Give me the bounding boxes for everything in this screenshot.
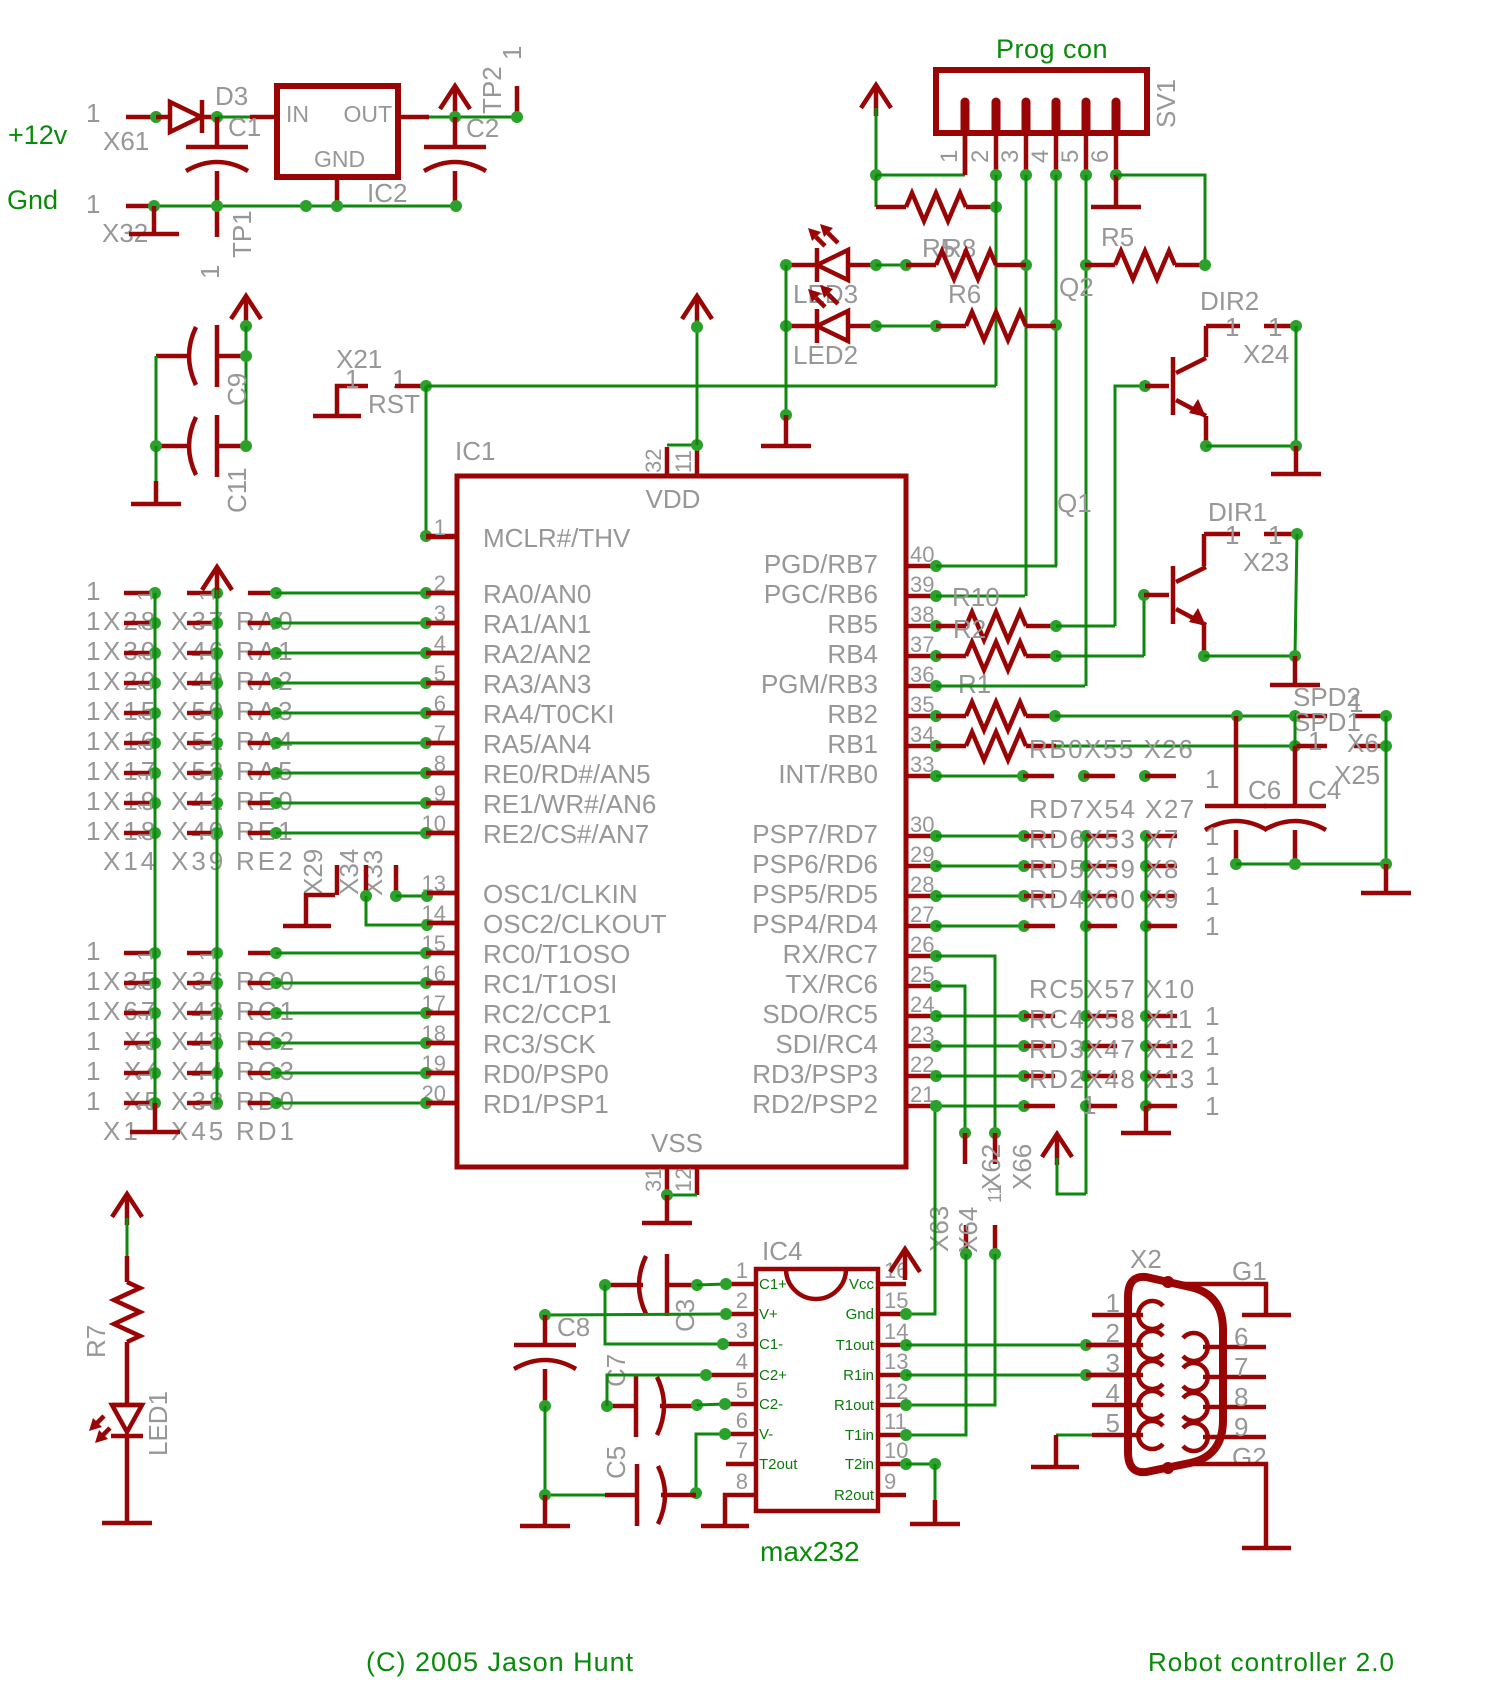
svg-text:C4: C4 [1308,775,1341,805]
svg-text:X62: X62 [976,1144,1006,1190]
Q1 base wire [1138,589,1169,656]
label C2 [466,113,499,143]
svg-text:7: 7 [1234,1352,1248,1382]
labels X17 X52 RA5 [103,756,296,786]
capacitor C6 [1205,716,1267,864]
connector row RC2 at y=1013: header pins and wire to IC1 [86,996,457,1026]
svg-text:VDD: VDD [646,484,701,514]
svg-text:T1out: T1out [836,1337,875,1354]
testpoint TP1 label [195,210,257,279]
title text [1148,1647,1395,1677]
label IC4 [762,1236,802,1266]
ground symbol below right GND rail [1121,1106,1171,1133]
connector X66 pin [989,1127,1001,1164]
IC4 pin8 to ground [701,1469,756,1526]
svg-text:RD2X48 X13: RD2X48 X13 [1029,1064,1196,1094]
svg-text:Q1: Q1 [1057,488,1092,518]
VDD jumper wire [667,444,697,447]
label X6 [1347,728,1379,758]
junction X32 [148,200,160,212]
svg-text:PGC/RB6: PGC/RB6 [764,579,878,609]
svg-text:TX/RC6: TX/RC6 [786,969,878,999]
svg-text:RE1/WR#/AN6: RE1/WR#/AN6 [483,789,656,819]
connector X34 pin [335,865,340,895]
Q1 emitter junctions and wire [1198,650,1301,662]
ground symbol below LEDs [761,415,811,446]
svg-text:12: 12 [671,1168,696,1192]
wire V- hook [690,1428,731,1499]
junction at C2 top [449,111,461,123]
svg-text:1: 1 [1205,821,1219,851]
capacitor C3 [605,1254,697,1316]
svg-text:X23: X23 [1243,547,1289,577]
svg-text:MCLR#/THV: MCLR#/THV [483,523,631,553]
svg-text:X63: X63 [924,1206,954,1252]
SV1 pin4 wire down [1055,175,1058,566]
svg-text:1: 1 [86,189,100,219]
svg-text:PSP5/RD5: PSP5/RD5 [752,879,878,909]
svg-text:T1in: T1in [845,1427,874,1444]
svg-text:RA5/AN4: RA5/AN4 [483,729,591,759]
svg-text:1: 1 [1205,1091,1219,1121]
svg-text:X33: X33 [358,850,388,896]
junction on gnd wire [300,200,312,212]
svg-text:1: 1 [345,364,359,394]
label RST [368,389,420,419]
connector row RD0 at y=1073: header pins and wire to IC1 [86,1056,457,1086]
svg-text:C9: C9 [222,373,252,406]
wire V+ to C8 [539,1308,732,1321]
left column wire C9-C11 [155,356,158,446]
resistor at RB2 row (SPD2 net) [930,702,1061,730]
svg-text:R2out: R2out [834,1487,875,1504]
resistor R7 [114,1256,140,1405]
svg-text:1: 1 [1205,881,1219,911]
svg-text:1: 1 [86,1026,100,1056]
connector row RC3 at y=1043: header pins and wire to IC1 [86,1026,457,1056]
IC1 left pin stubs, numbers and names [422,515,667,1119]
svg-text:X66: X66 [1007,1144,1037,1190]
junction C11 right [240,440,252,452]
svg-text:1: 1 [1205,851,1219,881]
connector X33 pin [360,865,372,902]
svg-text:LED2: LED2 [793,340,858,370]
svg-text:C1-: C1- [759,1336,783,1353]
svg-text:X29: X29 [298,849,328,895]
ground symbol below Q2 emitter [1271,446,1321,474]
connector row RE1 at y=803: header pins and wire to IC1 [86,786,457,816]
connector row RE2 at y=833: header pins and wire to IC1 [86,816,457,846]
svg-text:1: 1 [86,936,100,966]
svg-text:RB2: RB2 [827,699,878,729]
label X33 [358,850,388,896]
svg-text:RD0/PSP0: RD0/PSP0 [483,1059,609,1089]
junction X24 right [1290,320,1302,332]
label LED2 [793,340,858,370]
svg-text:RC3/SCK: RC3/SCK [483,1029,596,1059]
svg-text:LED1: LED1 [143,1391,173,1456]
label X2 [1130,1244,1162,1274]
labels RD7X54 X27 [1029,794,1196,824]
net label max232 [760,1536,860,1567]
svg-text:C1: C1 [228,112,261,142]
svg-text:RD3/PSP3: RD3/PSP3 [752,1059,878,1089]
svg-text:9: 9 [884,1469,896,1494]
SV1 pin2 wire down to RST [995,175,998,386]
connector row RD7X54 X27 at y=836 [930,821,1219,851]
svg-text:RC0/T1OSO: RC0/T1OSO [483,939,630,969]
junction C3 left [599,1279,611,1291]
label X29 [298,849,328,895]
wire INT/RB0 row [930,764,1219,794]
label X25 [1334,760,1380,790]
junction C2 bottom [450,200,462,212]
net label Gnd [7,185,58,215]
svg-text:RC1/T1OSI: RC1/T1OSI [483,969,617,999]
connector X63 pin [960,1225,972,1260]
svg-text:1: 1 [1205,1061,1219,1091]
svg-text:1: 1 [434,515,446,540]
labels X18 X40 RE1 [103,816,296,846]
svg-text:R10: R10 [952,582,1000,612]
X25 rail down [1385,716,1388,864]
resistor R1 (pin37 to Q1 base) [930,642,1144,670]
junction below +5V arrow [240,320,252,332]
IC1 box [457,476,906,1167]
capacitor C9 [156,325,246,387]
svg-text:V-: V- [759,1426,773,1443]
svg-text:5: 5 [1057,150,1084,163]
wire T2in to ground [906,1458,941,1500]
+5V rail right (column) [1085,836,1088,1194]
IC1 right pin stubs, numbers and names [752,542,936,1119]
svg-text:OUT: OUT [343,101,392,127]
wire +5V to SV1 pin1 [870,108,965,181]
junction LED2-resistor right [1050,319,1062,331]
junction C11 left [150,440,162,452]
labels X4 X44 RC3 [124,1056,297,1086]
labels RD5X59 X8 [1029,854,1180,884]
junction X23 right [1291,528,1303,540]
labels RD2X48 X13 [1029,1064,1196,1094]
svg-text:X61: X61 [103,126,149,156]
wire SPD1 junction column [1294,716,1297,746]
voltage regulator IC2 box [277,86,398,177]
svg-text:4: 4 [1027,150,1054,163]
wire to OSC2 [366,896,457,931]
label C4 [1308,775,1341,805]
svg-text:1: 1 [86,966,100,996]
svg-text:RA4/T0CKI: RA4/T0CKI [483,699,615,729]
wire +5V to R7 [126,1218,129,1256]
power +5V arrow above C9 column [231,296,261,327]
svg-text:D3: D3 [215,81,248,111]
svg-text:RD1/PSP1: RD1/PSP1 [483,1089,609,1119]
net label Prog con [996,34,1108,64]
svg-text:2: 2 [736,1288,748,1313]
svg-text:1: 1 [1268,520,1282,550]
ground wire (top) [154,205,456,208]
junction VSS [661,1189,673,1201]
IC2 pin names [286,101,392,172]
connector row RA2 at y=653: header pins and wire to IC1 [86,636,457,666]
left +5V rail (column B) [216,590,219,1103]
junction R8/SV1 pin2 [990,201,1002,213]
net label SPD1 [1293,707,1361,737]
power +5V arrow above C2 [440,86,470,117]
SPD1 pin stubs row 716 [1295,688,1386,718]
svg-text:RB5: RB5 [827,609,878,639]
svg-text:Vcc: Vcc [849,1276,875,1293]
svg-text:1: 1 [86,1056,100,1086]
cap ground wire [1230,858,1392,870]
junction on +12v wire [150,111,162,123]
svg-text:1: 1 [86,606,100,636]
junction C1/TP1 on gnd wire [211,200,223,212]
svg-text:RD5X59 X8: RD5X59 X8 [1029,854,1180,884]
SV1 pins 1-6 [936,102,1116,175]
wire LED3 to R6 [870,259,912,271]
svg-text:RA3/AN3: RA3/AN3 [483,669,591,699]
label R8 (overlapped) [922,233,976,263]
junction at MCLR [420,530,432,542]
svg-text:8: 8 [1234,1382,1248,1412]
svg-text:RST: RST [368,389,420,419]
capacitor C8 [514,1315,576,1406]
svg-text:4: 4 [1106,1378,1120,1408]
svg-text:G1: G1 [1232,1256,1267,1286]
node: D3 cathode / C1 / IN junction [211,111,223,123]
svg-text:RD2/PSP2: RD2/PSP2 [752,1089,878,1119]
svg-text:X24: X24 [1243,339,1289,369]
labels X19 X41 RE0 [103,786,296,816]
svg-text:RE2: RE2 [236,846,296,876]
ground symbol below X32 [129,206,179,234]
svg-text:R5: R5 [1101,222,1134,252]
pin 1 label of X61 [86,98,100,128]
svg-text:TP1: TP1 [227,210,257,258]
labels X28 X37 RA0 [103,606,296,636]
LED2 [786,285,876,343]
power +5V arrow feeding right rail [1042,1134,1086,1194]
svg-text:RB0X55 X26: RB0X55 X26 [1029,734,1194,764]
svg-text:RD7X54 X27: RD7X54 X27 [1029,794,1196,824]
svg-text:IC4: IC4 [762,1236,802,1266]
wire +5V to R8 [875,175,878,207]
connector X62 pin [959,1127,971,1164]
svg-text:RA2/AN2: RA2/AN2 [483,639,591,669]
labels RD3X47 X12 [1029,1034,1196,1064]
svg-text:V+: V+ [759,1306,778,1323]
labels RC4X58 X11 [1029,1004,1194,1034]
IC4 box [756,1269,878,1511]
svg-text:R1out: R1out [834,1397,875,1414]
label C3 [670,1299,700,1332]
svg-text:1: 1 [86,816,100,846]
svg-text:1: 1 [86,666,100,696]
power +5V arrow above VDD [682,296,712,327]
wire max232 Gnd pin up to RD2 row [906,1100,942,1314]
power +5V arrow at Vcc [890,1249,920,1280]
svg-text:SDO/RC5: SDO/RC5 [762,999,878,1029]
ground symbol below T2in hook [910,1500,960,1524]
svg-text:1: 1 [86,576,100,606]
wire +5V to VDD [691,320,703,445]
svg-text:INT/RB0: INT/RB0 [778,759,878,789]
wire SV1 pin6 to R5 right [1116,175,1205,265]
pin1 label row 1106 extra [1082,1090,1096,1120]
svg-text:1: 1 [86,726,100,756]
svg-text:RE0/RD#/AN5: RE0/RD#/AN5 [483,759,651,789]
SV1 pin3 wire down [1025,175,1028,596]
svg-text:(C) 2005 Jason Hunt: (C) 2005 Jason Hunt [366,1647,634,1677]
svg-text:Gnd: Gnd [846,1306,874,1323]
svg-text:11: 11 [671,450,696,473]
resistor R5 [1085,251,1205,279]
svg-text:RC2/CCP1: RC2/CCP1 [483,999,612,1029]
connector row RA5 at y=743: header pins and wire to IC1 [86,726,457,756]
svg-text:Q2: Q2 [1059,272,1094,302]
junction dots at IC4 right pins [900,1308,912,1470]
resistor R10 (pin38 to Q2 base) [930,612,1115,640]
net label SPD2 [1293,682,1361,712]
svg-text:1: 1 [86,786,100,816]
label VSS [651,1128,703,1158]
junction IC2 GND [331,200,343,212]
wire RB2 to SPD connectors [1055,710,1301,722]
label LED1 [143,1391,173,1456]
wire X64 to R1out [906,1254,995,1405]
RST pin stub [395,384,426,389]
connector row RC4X58 X11 at y=1046 [930,1031,1219,1061]
svg-text:C5: C5 [601,1446,631,1479]
capacitor C1 [186,117,248,237]
X2 G1 pin and ground [1178,1256,1291,1315]
connector X21 pin (step symbol) [313,386,368,416]
labels RC5X57 X10 [1029,974,1196,1004]
transistor Q2 [1173,326,1206,446]
junction R6 right [1020,259,1032,271]
svg-text:2: 2 [967,150,994,163]
svg-text:1: 1 [1205,911,1219,941]
svg-text:RA1/AN1: RA1/AN1 [483,609,591,639]
labels X30 X46 RA1 [103,636,296,666]
junction R5 left [1080,259,1092,271]
resistor at LED2 row [936,312,1056,340]
ground wire below C11 [155,446,158,481]
ground symbol below C8/C5 [520,1495,570,1526]
svg-text:C8: C8 [557,1312,590,1342]
svg-text:T2in: T2in [845,1456,874,1473]
svg-text:RC5X57 X10: RC5X57 X10 [1029,974,1196,1004]
svg-text:max232: max232 [760,1536,860,1567]
label C7 [601,1354,631,1387]
resistor at RB1 row (SPD1 net) [930,732,1056,760]
ground symbol below VSS [642,1195,692,1223]
wire OUT to TP2 [429,116,517,119]
X2 G2 pin and ground [1178,1442,1291,1548]
svg-text:9: 9 [1234,1412,1248,1442]
label C9 [222,373,252,406]
svg-text:VSS: VSS [651,1128,703,1158]
svg-text:SPD1: SPD1 [1293,707,1361,737]
IC2 GND pin stub [335,177,340,206]
wire LED2 to resistor [870,320,942,332]
IC2 IN pin stub [250,115,277,120]
svg-text:RD4X60 X9: RD4X60 X9 [1029,884,1180,914]
LED3 [786,224,876,282]
svg-text:X2: X2 [1130,1244,1162,1274]
labels RD4X60 X9 [1029,884,1180,914]
labels X15 X50 RA3 [103,696,296,726]
svg-text:7: 7 [736,1438,748,1463]
wire pin39 to SV1 pin3 [930,590,1025,602]
SV1 pin5 wire down [1085,175,1088,686]
svg-text:Prog con: Prog con [996,34,1108,64]
connector row RD6X53 X7 at y=866 [930,851,1219,881]
capacitor C7 [607,1375,697,1437]
label R5 [1101,222,1134,252]
+5V column wire [245,326,248,446]
connector row RA0 at y=593: header pins and wire to IC1 [86,576,457,606]
svg-text:R7: R7 [81,1325,111,1358]
left GND rail (column A) [154,593,157,1103]
power +5V arrow left of SV1 [861,85,891,116]
svg-text:5: 5 [1106,1408,1120,1438]
wire X23 down [1295,534,1297,656]
svg-text:PSP7/RD7: PSP7/RD7 [752,819,878,849]
svg-text:1: 1 [1205,764,1219,794]
svg-text:PGM/RB3: PGM/RB3 [761,669,878,699]
svg-text:1: 1 [1225,312,1239,342]
label R6 [948,279,981,309]
connector row RC5X57 X10 at y=1016 [930,1001,1219,1031]
svg-text:X64: X64 [953,1207,983,1253]
svg-text:1: 1 [736,1258,748,1283]
svg-text:R6: R6 [948,279,981,309]
svg-text:GND: GND [314,146,365,172]
wire C3 to C1- pin [605,1285,729,1350]
Q2 base wire [1115,380,1169,626]
svg-text:3: 3 [736,1318,748,1343]
svg-text:RD3X47 X12: RD3X47 X12 [1029,1034,1196,1064]
capacitor C4 [1264,746,1326,864]
connector row RC1 at y=983: header pins and wire to IC1 [86,966,457,996]
net label +12v [8,120,68,150]
junction LED2 left [780,320,792,332]
connector X64 pin [989,1225,1001,1260]
svg-text:1: 1 [86,756,100,786]
wire TX/RC6 down [930,980,965,1133]
connector SV1 box [936,70,1147,133]
connector X29 pin with ground [283,895,335,926]
label R1 [958,669,991,699]
GND rail right (column) [1145,836,1148,1106]
wire T1out to X2 pin2 [906,1339,1128,1351]
junction C5 left [539,1489,551,1501]
ground symbol below left column A [130,1103,180,1132]
svg-text:1: 1 [1082,1090,1096,1120]
svg-text:1: 1 [1205,1031,1219,1061]
wire X33 pin to OSC1 [396,890,457,902]
labels X14 X39 RE2 [103,846,296,876]
svg-text:X14: X14 [103,846,158,876]
connector row RD2X48 X13 at y=1106 [930,1091,1219,1121]
wire R1in to X2 pin3 [906,1369,1128,1381]
IC2 OUT pin stub [398,115,429,120]
diode D3 [156,100,217,133]
resistor R8 [876,193,996,221]
